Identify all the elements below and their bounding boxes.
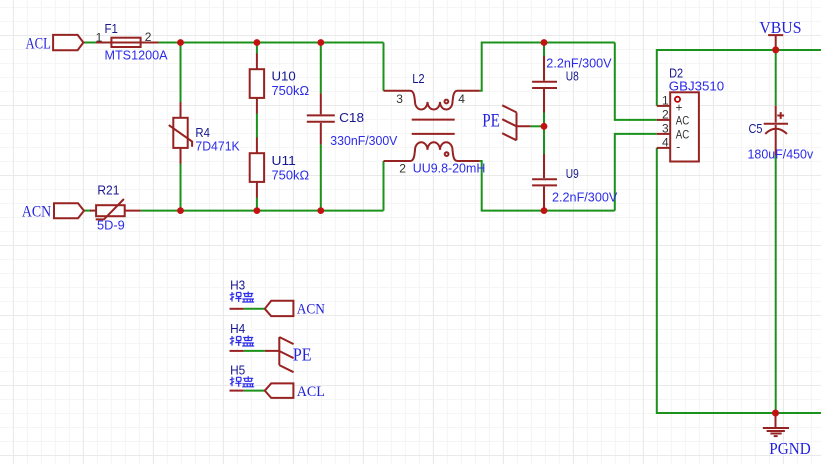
bridge rectifier D2 (657, 92, 699, 161)
pad H4 (230, 350, 244, 352)
pad H5 (230, 390, 244, 392)
wire C5 top (775, 50, 777, 106)
svg-text:H5: H5 (230, 362, 245, 377)
junction node top rail at C18 (317, 39, 324, 46)
svg-text:PGND: PGND (769, 439, 810, 458)
svg-text:U11: U11 (272, 153, 296, 168)
junction node top rail at U8 (541, 39, 548, 46)
value pad (CJK) H5 (230, 376, 255, 387)
svg-text:C18: C18 (339, 110, 364, 125)
junction node PE (541, 123, 548, 130)
wire R4 top (180, 43, 182, 104)
svg-text:ACN: ACN (22, 203, 52, 220)
varistor R21 (90, 199, 141, 219)
port ACN (54, 203, 84, 218)
pad H3 (230, 308, 244, 310)
wire H5 to ACL port (244, 390, 265, 392)
svg-text:ACL: ACL (26, 35, 51, 52)
svg-text:1: 1 (96, 31, 103, 45)
ground PGND (763, 413, 789, 436)
common-mode choke L2 top winding (384, 91, 480, 110)
svg-text:-: - (676, 140, 680, 154)
wire R21 to bottom rail (141, 210, 181, 212)
net flag VBUS (768, 35, 783, 49)
svg-text:330nF/300V: 330nF/300V (330, 133, 397, 148)
wire H3 to ACN port (244, 308, 265, 310)
svg-text:F1: F1 (105, 21, 118, 36)
svg-text:3: 3 (396, 92, 403, 106)
svg-text:H3: H3 (230, 278, 245, 293)
svg-text:UU9.8-20mH: UU9.8-20mH (413, 160, 486, 175)
varistor R4 (169, 102, 192, 164)
common-mode choke L2 bottom winding (384, 142, 480, 161)
wire ACN port to R21 (84, 210, 91, 212)
pin 1 dot of D2 (675, 97, 680, 102)
wire F1 to node A top rail (159, 42, 384, 44)
wire L2 top-left vertical (383, 43, 385, 91)
svg-text:2: 2 (662, 108, 669, 122)
wire C5 bottom (775, 155, 777, 413)
svg-text:1: 1 (662, 94, 669, 108)
svg-text:2.2nF/300V: 2.2nF/300V (546, 56, 612, 71)
capacitor C18 (307, 93, 335, 144)
value pad (CJK) H3 (230, 292, 255, 303)
svg-text:GBJ3510: GBJ3510 (669, 78, 724, 93)
junction node top rail at R4 (177, 39, 184, 46)
wire H4 to PE symbol (244, 350, 265, 352)
wire to D2 pin3 (615, 134, 657, 211)
svg-text:750kΩ: 750kΩ (272, 83, 310, 98)
svg-text:MTS1200A: MTS1200A (105, 47, 168, 62)
wire bottom rail left (181, 210, 384, 212)
wire U11 bottom (256, 197, 258, 211)
wire L2 pin4 to top rail right (480, 43, 615, 91)
wire ACL port to F1 (83, 42, 97, 44)
value pad (CJK) H4 (230, 336, 255, 347)
PE net symbol at L2 (502, 105, 530, 140)
wire D2 pin1 to VBUS rail (657, 50, 821, 106)
svg-text:R21: R21 (97, 183, 119, 198)
resistor U10 (250, 54, 264, 114)
wire PE lead (530, 125, 544, 127)
junction node bottom rail at U11 (254, 207, 261, 214)
svg-text:VBUS: VBUS (759, 18, 801, 37)
svg-text:ACN: ACN (297, 302, 325, 318)
svg-text:750kΩ: 750kΩ (272, 167, 310, 182)
svg-text:180uF/450v: 180uF/450v (748, 147, 814, 162)
svg-text:5D-9: 5D-9 (97, 218, 125, 233)
svg-text:4: 4 (662, 136, 669, 150)
svg-text:7D471K: 7D471K (195, 138, 240, 153)
wire C18 top (320, 43, 322, 94)
svg-text:2: 2 (399, 162, 406, 176)
svg-text:3: 3 (662, 122, 669, 136)
fuse F1 (96, 38, 159, 47)
svg-text:L2: L2 (412, 71, 425, 86)
PE net symbol at H4 (265, 337, 294, 372)
wire C18 bottom (320, 144, 322, 210)
capacitor U8 (532, 56, 557, 113)
svg-text:2.2nF/300V: 2.2nF/300V (552, 190, 618, 205)
wire L2 bottom-left vertical (383, 161, 385, 211)
wire to D2 pin2 (615, 43, 657, 120)
port ACL at H5 (265, 383, 294, 398)
port ACL (53, 35, 83, 50)
wire U10 top (256, 43, 258, 55)
wire D2 pin4 to PGND rail (657, 148, 821, 413)
svg-text:U10: U10 (272, 69, 296, 84)
svg-text:H4: H4 (230, 321, 245, 336)
capacitor U9 (532, 154, 557, 211)
junction node bottom rail at C18 (317, 207, 324, 214)
junction node PGND (772, 410, 779, 417)
svg-text:ACL: ACL (297, 384, 325, 400)
svg-text:2: 2 (145, 30, 152, 44)
wire U8 bottom to PE node (543, 113, 545, 155)
wire L2 pin1 to bottom rail right (480, 161, 615, 211)
polarized capacitor C5 (764, 106, 788, 156)
junction node bottom rail at U9 (541, 207, 548, 214)
resistor U11 (250, 138, 264, 198)
junction node top rail at U10 (254, 39, 261, 46)
wire U10 to U11 (256, 113, 258, 138)
svg-text:U9: U9 (566, 166, 579, 181)
svg-text:AC: AC (676, 113, 690, 127)
svg-text:PE: PE (482, 110, 500, 131)
svg-text:C5: C5 (749, 121, 763, 136)
svg-text:PE: PE (293, 345, 312, 365)
wire R4 bottom (180, 163, 182, 211)
svg-text:U8: U8 (566, 68, 579, 83)
L2 core bars (412, 120, 455, 134)
junction node VBUS (772, 46, 779, 53)
wire U8 top (543, 43, 545, 58)
port ACN at H3 (265, 301, 294, 316)
junction node bottom rail at R4 (177, 207, 184, 214)
svg-text:4: 4 (458, 92, 465, 106)
